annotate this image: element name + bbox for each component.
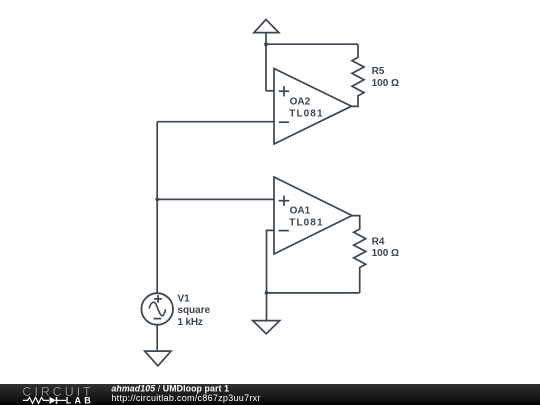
svg-text:square: square	[177, 305, 210, 316]
svg-text:LAB: LAB	[66, 396, 92, 405]
svg-text:R5: R5	[372, 66, 385, 77]
svg-text:OA1: OA1	[290, 206, 311, 217]
svg-text:R4: R4	[372, 236, 385, 247]
svg-text:V1: V1	[178, 293, 191, 304]
svg-text:ahmad105 / UMDloop part 1: ahmad105 / UMDloop part 1	[111, 384, 229, 394]
svg-text:http://circuitlab.com/c867zp3u: http://circuitlab.com/c867zp3uu7rxr	[111, 394, 260, 404]
svg-text:100 Ω: 100 Ω	[372, 78, 399, 89]
svg-text:1 kHz: 1 kHz	[178, 317, 203, 328]
svg-text:TL081: TL081	[289, 109, 323, 120]
svg-text:TL081: TL081	[289, 218, 323, 229]
svg-text:100 Ω: 100 Ω	[372, 248, 399, 259]
svg-text:OA2: OA2	[290, 97, 311, 108]
